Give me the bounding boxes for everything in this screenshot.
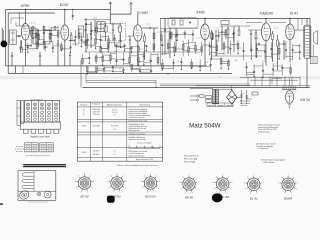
wire V5 anode xyxy=(265,18,267,23)
osc coil box xyxy=(79,26,84,37)
alignment table grid xyxy=(77,102,162,161)
fm coil b xyxy=(180,20,183,25)
wire y28b xyxy=(160,27,198,29)
svg-text:spulen durch nachgleichen: spulen durch nachgleichen xyxy=(129,111,148,113)
wire top bus 2 xyxy=(8,12,55,14)
right vertical joins xyxy=(247,77,249,87)
svg-text:1: 1 xyxy=(288,175,289,177)
svg-text:8: 8 xyxy=(244,182,245,184)
vert c1 xyxy=(32,30,34,44)
right top lattice xyxy=(160,31,162,42)
scattered value labels xyxy=(31,22,36,24)
svg-text:EL41: EL41 xyxy=(290,12,298,16)
tube ECH81 V3 xyxy=(134,25,143,41)
dashed IF box xyxy=(101,23,126,41)
cap c11 xyxy=(175,35,177,37)
wire V4 anode xyxy=(204,18,206,24)
svg-text:verbinden: verbinden xyxy=(240,104,247,107)
svg-text:ECH81: ECH81 xyxy=(137,11,148,15)
svg-text:Messpunkt Bereich: Messpunkt Bereich xyxy=(184,155,198,158)
svg-text:8: 8 xyxy=(75,181,76,183)
wire y20 seg xyxy=(84,19,110,21)
blob artifact C xyxy=(212,193,223,202)
svg-text:L5: L5 xyxy=(114,114,116,116)
vert x95 xyxy=(94,20,96,36)
vert x313 drop xyxy=(312,45,314,57)
wire V1 anode xyxy=(24,9,26,23)
dial caption xyxy=(28,201,48,203)
svg-text:150: 150 xyxy=(151,147,154,149)
mixer band parts xyxy=(81,34,83,47)
svg-text:2: 2 xyxy=(195,176,196,178)
svg-text:2: 2 xyxy=(259,177,260,179)
svg-text:2: 2 xyxy=(156,175,157,177)
svg-text:6: 6 xyxy=(147,191,148,193)
svg-text:L7: L7 xyxy=(114,154,116,156)
svg-text:4: 4 xyxy=(158,187,159,189)
vert x165 xyxy=(164,18,166,55)
svg-text:F1 F2 F3: F1 F2 F3 xyxy=(111,126,118,128)
mini table left xyxy=(25,143,39,152)
svg-text:3: 3 xyxy=(198,182,199,184)
svg-text:5: 5 xyxy=(120,191,121,193)
svg-text:FM 1 2,25 0,9µA: FM 1 2,25 0,9µA xyxy=(184,158,198,161)
svg-text:8: 8 xyxy=(179,182,180,184)
tube EABC80 V5 xyxy=(262,23,271,41)
cap c8 xyxy=(90,33,92,35)
socket EF85 xyxy=(183,178,195,190)
right top lattice 2 xyxy=(212,31,214,39)
svg-text:UKW: UKW xyxy=(82,152,87,154)
svg-text:L6: L6 xyxy=(114,151,116,153)
svg-text:5: 5 xyxy=(291,193,292,195)
svg-text:EF80: EF80 xyxy=(196,11,204,15)
cap c13 xyxy=(283,43,285,45)
IF can 2 xyxy=(97,22,105,32)
svg-text:10,7 MHz: 10,7 MHz xyxy=(92,126,100,128)
vert x176 xyxy=(175,28,177,52)
far right parts A xyxy=(243,42,245,60)
svg-text:50k: 50k xyxy=(234,60,237,62)
resistor R2 xyxy=(38,34,40,39)
switch bank top view xyxy=(25,101,60,123)
svg-text:EABC80: EABC80 xyxy=(260,12,273,16)
svg-text:EM 34: EM 34 xyxy=(300,98,309,102)
wire y80 seg xyxy=(250,79,298,81)
wire V6 anode xyxy=(289,18,291,24)
tube EC92 V2 xyxy=(61,25,69,40)
svg-text:9: 9 xyxy=(144,175,145,177)
wire y56 seg xyxy=(212,55,262,57)
svg-text:UKW-Vorkreis und Oszilla-: UKW-Vorkreis und Oszilla- xyxy=(129,151,148,153)
svg-text:3: 3 xyxy=(93,181,94,183)
left cluster parts xyxy=(30,27,32,44)
wire y26 seg c xyxy=(240,25,250,27)
corner mark bottom left xyxy=(0,203,3,205)
under IF links xyxy=(100,44,102,54)
svg-text:2: 2 xyxy=(123,175,124,177)
svg-text:7: 7 xyxy=(245,189,246,191)
svg-text:6: 6 xyxy=(250,193,251,195)
svg-text:9: 9 xyxy=(111,175,112,177)
vert x86 xyxy=(85,18,87,52)
wire V1 cathode xyxy=(24,40,26,66)
left low parts xyxy=(20,40,22,51)
wire y86 bus2 xyxy=(160,85,310,87)
electrolytic C1 xyxy=(241,90,243,104)
svg-text:4: 4 xyxy=(125,187,126,189)
svg-text:1: 1 xyxy=(222,174,223,176)
tube EM34 xyxy=(286,91,294,104)
svg-text:4: 4 xyxy=(261,189,262,191)
wire bottom bus y88 xyxy=(83,87,311,89)
nested wires upper left xyxy=(18,13,20,26)
antenna arrow 1 xyxy=(109,2,111,4)
output transformer xyxy=(305,25,310,58)
socket ECH81 xyxy=(144,177,156,189)
EM34 socket bar xyxy=(282,87,297,89)
wire y22 seg b xyxy=(270,22,286,24)
socket EL41 xyxy=(248,178,260,190)
svg-text:EL 41: EL 41 xyxy=(250,197,258,201)
resistor R3 xyxy=(49,34,51,40)
switch bank lower tray xyxy=(20,122,60,129)
svg-text:10k: 10k xyxy=(262,61,265,63)
wire V4 down xyxy=(204,40,206,66)
svg-text:98 MHz: 98 MHz xyxy=(93,151,99,153)
fuse xyxy=(200,95,205,97)
svg-text:7: 7 xyxy=(109,187,110,189)
cap c10 xyxy=(164,29,166,31)
svg-text:9: 9 xyxy=(247,177,248,179)
cap c4 xyxy=(43,41,45,43)
svg-text:6: 6 xyxy=(113,191,114,193)
svg-text:abgleichen, dann prüfen: abgleichen, dann prüfen xyxy=(129,139,146,141)
svg-text:3: 3 xyxy=(263,182,264,184)
vert x298 xyxy=(297,18,299,30)
choke xyxy=(252,92,258,95)
wire y77 seg right xyxy=(240,77,300,79)
svg-text:9: 9 xyxy=(282,177,283,179)
resistor R5 xyxy=(85,40,87,46)
svg-text:6: 6 xyxy=(284,193,285,195)
socket EF80 xyxy=(78,177,90,189)
svg-text:3: 3 xyxy=(231,182,232,184)
mini table right xyxy=(40,143,54,152)
svg-text:5: 5 xyxy=(153,191,154,193)
speaker xyxy=(313,33,315,42)
svg-text:Netzspannung: Netzspannung xyxy=(258,131,269,134)
IF coil 1 xyxy=(104,26,107,32)
wire right edge drop xyxy=(309,18,311,58)
wire top bus 1 xyxy=(6,8,111,10)
svg-text:7: 7 xyxy=(142,187,143,189)
vert x170 xyxy=(169,28,171,58)
svg-text:8: 8 xyxy=(107,181,108,183)
blob artifact A xyxy=(1,41,8,48)
wire mid bus y66 xyxy=(6,65,207,67)
grid parts V1 xyxy=(29,27,36,29)
svg-text:EF 85: EF 85 xyxy=(185,196,193,200)
vert x302 xyxy=(301,18,303,25)
dial pulley small xyxy=(37,192,41,196)
right band parts A xyxy=(161,40,163,55)
svg-text:20: 20 xyxy=(136,147,138,149)
svg-text:Matz 504W: Matz 504W xyxy=(189,122,220,129)
coupling parts V1 xyxy=(16,35,21,37)
svg-text:3: 3 xyxy=(126,181,127,183)
svg-text:7: 7 xyxy=(280,189,281,191)
resistor R1 xyxy=(21,47,23,53)
svg-text:8: 8 xyxy=(141,181,142,183)
svg-text:UKW: UKW xyxy=(82,126,87,128)
right band parts B xyxy=(161,59,163,70)
mixer columns xyxy=(85,23,87,38)
vert x72.8 xyxy=(72,9,74,20)
mini table side text xyxy=(16,146,23,148)
power transformer xyxy=(213,89,216,104)
cap C5 xyxy=(57,43,59,45)
socket EABC80 xyxy=(217,178,229,190)
grid R4 xyxy=(70,35,72,41)
vert x81 drop xyxy=(80,60,82,88)
svg-text:Druck am Regler: Druck am Regler xyxy=(137,141,152,144)
dial pulley right xyxy=(44,191,51,198)
wire x110 down xyxy=(110,23,121,25)
svg-text:3: 3 xyxy=(159,181,160,183)
cluster mid1 rail xyxy=(29,29,60,31)
wire V3 down xyxy=(137,41,139,66)
vol pot xyxy=(277,40,279,46)
node dots xyxy=(32,30,33,31)
wire EM34 up xyxy=(289,78,291,86)
svg-text:EF 80: EF 80 xyxy=(81,194,89,198)
vert x154 xyxy=(153,28,155,52)
svg-text:5k: 5k xyxy=(177,61,179,63)
wire OT bottom xyxy=(306,58,308,87)
wire y82 left xyxy=(86,82,156,84)
svg-text:5: 5 xyxy=(192,192,193,194)
svg-text:5: 5 xyxy=(87,191,88,193)
wire V2 anode xyxy=(64,9,66,25)
R10 xyxy=(272,34,274,40)
svg-text:3: 3 xyxy=(297,182,298,184)
svg-text:Bemerkung: Bemerkung xyxy=(140,104,150,106)
svg-text:50: 50 xyxy=(144,147,146,149)
legend strip xyxy=(207,103,233,107)
mid band parts B xyxy=(86,67,88,74)
vert x91 xyxy=(90,22,92,48)
vert x160 drop xyxy=(160,18,162,65)
svg-text:8: 8 xyxy=(278,182,279,184)
wire top link y14 xyxy=(110,13,131,15)
antenna input xyxy=(1,28,3,41)
svg-text:1: 1 xyxy=(117,173,118,175)
svg-text:9: 9 xyxy=(78,175,79,177)
switch bank feet xyxy=(24,129,29,133)
antenna arrow 2 xyxy=(129,2,131,4)
bridge rectifier xyxy=(227,90,237,104)
socket EM34 xyxy=(282,178,294,190)
EM34 box corner xyxy=(272,77,282,79)
wire antenna riser 1 xyxy=(109,2,111,24)
svg-text:1: 1 xyxy=(253,175,254,177)
fm coil a xyxy=(172,20,175,25)
svg-text:2: 2 xyxy=(228,176,229,178)
wire antenna riser 2 xyxy=(130,2,132,14)
parts x74-80 xyxy=(75,30,77,46)
wire left drop 2 xyxy=(7,13,9,73)
svg-text:EF80: EF80 xyxy=(21,4,29,8)
svg-text:EC92: EC92 xyxy=(60,3,69,7)
wire left drop 1 xyxy=(5,9,7,66)
svg-text:F4: F4 xyxy=(113,129,115,131)
svg-text:1: 1 xyxy=(150,173,151,175)
svg-text:9: 9 xyxy=(216,176,217,178)
vert c2 xyxy=(38,30,40,47)
R9 xyxy=(211,33,213,39)
fm cap xyxy=(189,21,191,23)
vert x156 step xyxy=(155,80,157,87)
svg-text:4: 4 xyxy=(197,188,198,190)
svg-text:Bereich: Bereich xyxy=(80,104,87,106)
IF can 1 xyxy=(10,30,17,44)
left bus verticals xyxy=(14,66,16,74)
svg-text:570 kHz: 570 kHz xyxy=(93,114,100,116)
svg-text:Frequenz: Frequenz xyxy=(92,103,100,106)
svg-text:4: 4 xyxy=(230,188,231,190)
svg-text:1: 1 xyxy=(189,174,190,176)
svg-text:beider Kreisspulen abglei-: beider Kreisspulen abglei- xyxy=(129,113,148,115)
wire V5 down xyxy=(265,41,267,66)
dial box xyxy=(18,171,56,201)
svg-text:nachmessen: nachmessen xyxy=(258,148,268,150)
dial scale bar xyxy=(23,164,66,165)
blob artifact B xyxy=(107,196,115,203)
svg-text:5: 5 xyxy=(225,192,226,194)
cap C1 xyxy=(30,44,32,46)
svg-text:Apparatename 1/100: Apparatename 1/100 xyxy=(136,158,153,161)
tube EL41 V6 xyxy=(286,24,295,40)
cap h3 xyxy=(69,54,71,56)
parts x220-240 xyxy=(220,25,240,27)
cap h2 xyxy=(39,55,41,57)
cap h1 xyxy=(11,55,13,57)
wire PS y88b xyxy=(190,87,213,89)
svg-text:7: 7 xyxy=(76,187,77,189)
svg-text:±10% Toleranz: ±10% Toleranz xyxy=(263,161,275,164)
wire y52 seg1 xyxy=(84,51,200,53)
svg-text:*: * xyxy=(114,108,115,110)
R8 xyxy=(169,33,171,39)
switch bank caption above xyxy=(31,99,43,101)
cap C6 xyxy=(73,39,75,41)
wire right top bus xyxy=(160,17,310,19)
svg-text:Dämpfung der Kreise abgl.: Dämpfung der Kreise abgl. xyxy=(129,120,149,122)
IF coil 2 xyxy=(119,26,122,32)
svg-text:2: 2 xyxy=(294,177,295,179)
speaker box right xyxy=(310,56,317,63)
svg-text:4: 4 xyxy=(92,187,93,189)
IF cap 1 xyxy=(112,29,114,31)
tube EF80 V4 xyxy=(201,24,210,40)
svg-text:gleichen auf Maximum: gleichen auf Maximum xyxy=(129,155,146,157)
svg-text:2M: 2M xyxy=(149,60,152,62)
wire V6 to OT xyxy=(294,29,304,31)
far right parts B xyxy=(245,62,247,76)
svg-text:7: 7 xyxy=(181,188,182,190)
wire y84 seg xyxy=(160,83,250,85)
svg-text:Abgleich von oben: Abgleich von oben xyxy=(30,136,50,139)
wire OT top xyxy=(306,18,308,25)
cap c12 xyxy=(215,35,217,37)
resistor boxes PS xyxy=(206,96,212,99)
dial cord loops xyxy=(22,173,31,176)
R6 xyxy=(144,36,146,42)
vert c3 xyxy=(43,30,45,49)
switch bank left strips xyxy=(17,101,20,126)
parts near V5 xyxy=(248,29,262,31)
wire y22 seg a xyxy=(246,22,262,24)
svg-text:88 MHz: 88 MHz xyxy=(93,154,99,156)
svg-text:Abgleich-Nummer: Abgleich-Nummer xyxy=(107,103,123,106)
small box top right xyxy=(221,21,229,25)
svg-text:2: 2 xyxy=(90,175,91,177)
wire y80 left xyxy=(86,79,156,81)
dial pulley large xyxy=(18,189,30,200)
wire V6 down xyxy=(289,40,291,62)
svg-text:5: 5 xyxy=(257,193,258,195)
wire PS top xyxy=(219,88,232,90)
wire mid bus y73 xyxy=(8,72,232,74)
cap c7 xyxy=(85,23,87,25)
wire V2 cathode xyxy=(64,40,66,66)
parts near V3 xyxy=(128,35,134,37)
parts above rail xyxy=(32,26,34,30)
tube EF80 V1 xyxy=(21,24,29,41)
socket EC92 xyxy=(111,177,123,189)
svg-text:7: 7 xyxy=(214,188,215,190)
vert c4 xyxy=(49,30,51,44)
wire V3 anode xyxy=(137,14,139,25)
mains entry xyxy=(190,95,196,97)
mini table caption xyxy=(26,155,50,157)
wire bridge out xyxy=(237,96,242,98)
svg-text:8: 8 xyxy=(213,182,214,184)
wire y44 link xyxy=(33,43,50,45)
svg-text:6: 6 xyxy=(185,192,186,194)
R7 xyxy=(153,33,155,39)
svg-text:EM34: EM34 xyxy=(284,197,292,201)
electrolytic C2 xyxy=(246,90,248,104)
svg-text:1: 1 xyxy=(84,173,85,175)
svg-text:9: 9 xyxy=(183,176,184,178)
vert x86 step xyxy=(85,73,87,82)
svg-text:FM 2 25 98µA: FM 2 25 98µA xyxy=(184,160,196,163)
svg-text:4: 4 xyxy=(296,189,297,191)
cap c2 xyxy=(32,37,34,39)
svg-text:6: 6 xyxy=(81,191,82,193)
wire PS y85 xyxy=(196,85,250,87)
svg-text:ECH 81: ECH 81 xyxy=(145,194,156,198)
fm dashed box xyxy=(168,18,198,29)
cap c9 xyxy=(149,27,151,29)
mid band parts A xyxy=(81,54,83,65)
